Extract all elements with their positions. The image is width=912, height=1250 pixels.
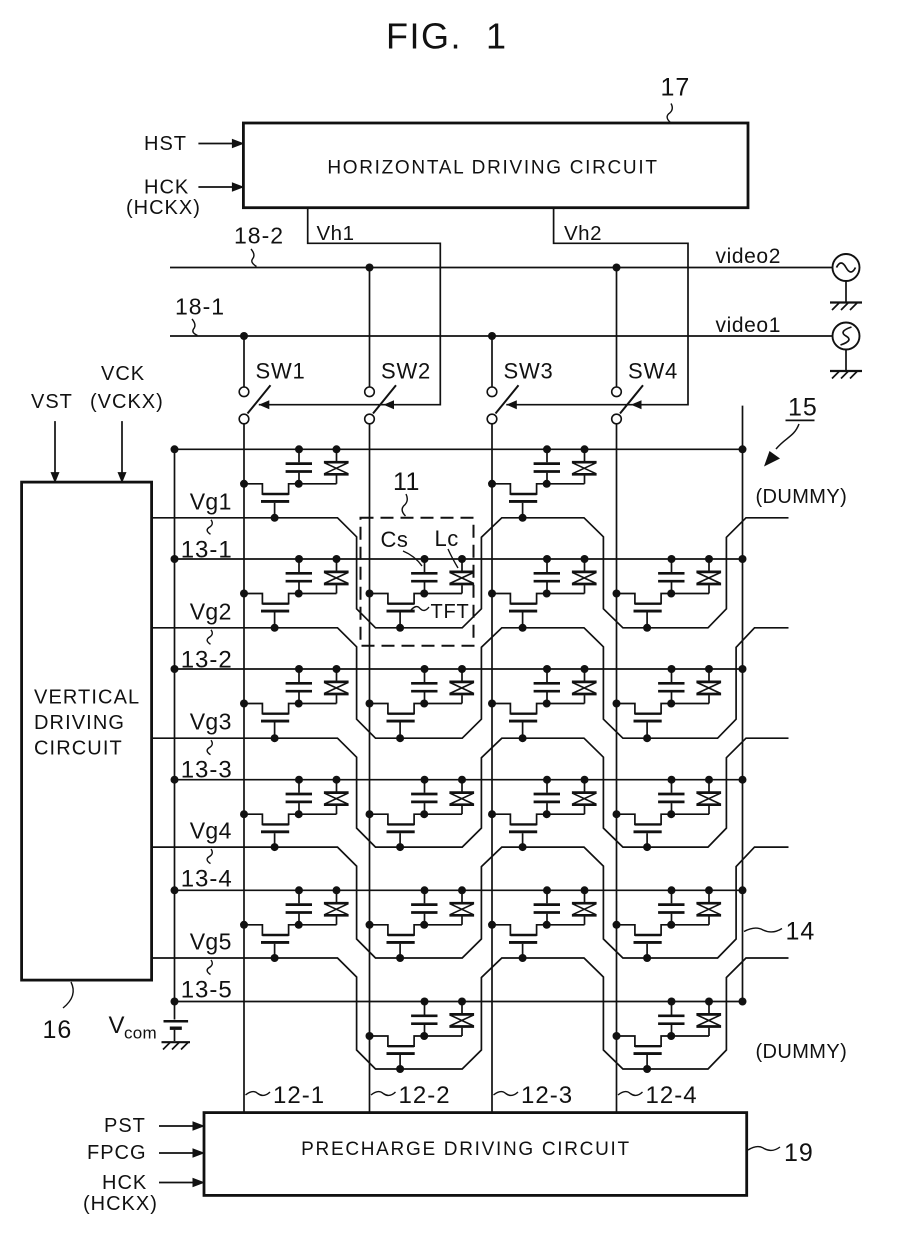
liquid crystal cell Lc row5 col3 xyxy=(547,886,597,925)
storage capacitor Cs row2 col1 xyxy=(286,555,312,594)
label 12-4 xyxy=(618,1082,698,1109)
label 13-1 leader xyxy=(181,520,233,564)
left Vcom bus wire xyxy=(174,449,176,1019)
liquid crystal cell Lc row3 col4 xyxy=(671,665,721,704)
ground video1 xyxy=(830,371,862,379)
storage capacitor Cs row3 col4 xyxy=(658,665,684,704)
svg-text:PST: PST xyxy=(104,1115,146,1137)
storage capacitor Cs row4 col2 xyxy=(411,776,437,815)
pixel TFT row6 col2 xyxy=(366,1032,429,1073)
storage capacitor Cs row2 col4 xyxy=(658,555,684,594)
storage capacitor Cs row5 col2 xyxy=(411,886,437,925)
svg-text:CIRCUIT: CIRCUIT xyxy=(34,738,123,760)
svg-text:17: 17 xyxy=(661,74,691,102)
svg-text:SW3: SW3 xyxy=(504,359,554,384)
svg-text:FPCG: FPCG xyxy=(87,1142,147,1164)
label 13-3 leader xyxy=(181,740,233,784)
svg-text:Vg4: Vg4 xyxy=(190,818,232,844)
liquid crystal cell Lc row2 col4 xyxy=(671,555,721,594)
svg-text:Vh2: Vh2 xyxy=(564,222,602,245)
liquid crystal cell Lc row2 col3 xyxy=(547,555,597,594)
svg-text:Cs: Cs xyxy=(381,527,409,552)
svg-text:(DUMMY): (DUMMY) xyxy=(756,486,848,508)
liquid crystal cell Lc row2 col1 xyxy=(299,555,349,594)
svg-text:13-3: 13-3 xyxy=(181,757,233,784)
svg-text:(DUMMY): (DUMMY) xyxy=(756,1041,848,1063)
label 14 leader xyxy=(744,918,815,946)
svg-text:(VCKX): (VCKX) xyxy=(90,391,164,413)
video2 signal line xyxy=(170,245,833,268)
PST input arrow xyxy=(104,1115,205,1137)
svg-text:PRECHARGE DRIVING CIRCUIT: PRECHARGE DRIVING CIRCUIT xyxy=(301,1139,631,1160)
pixel TFT row2 col1 xyxy=(240,590,303,632)
storage capacitor Cs row3 col1 xyxy=(286,665,312,704)
svg-text:VST: VST xyxy=(31,391,73,413)
svg-text:HCK: HCK xyxy=(102,1172,147,1194)
storage capacitor Cs row5 col1 xyxy=(286,886,312,925)
common line row 3 xyxy=(171,776,747,784)
common line row 1 xyxy=(171,555,747,563)
storage capacitor Cs row1 col1 xyxy=(286,445,312,484)
storage capacitor Cs row1 col3 xyxy=(534,445,560,484)
svg-text:13-4: 13-4 xyxy=(181,866,233,893)
svg-text:FIG.: FIG. xyxy=(386,16,462,57)
liquid crystal cell Lc row6 col4 xyxy=(671,998,721,1037)
svg-text:Vg3: Vg3 xyxy=(190,709,232,735)
pixel TFT row3 col4 xyxy=(613,700,676,743)
svg-text:(HCKX): (HCKX) xyxy=(126,197,201,219)
svg-text:13-5: 13-5 xyxy=(181,977,233,1004)
label 18-2 leader xyxy=(234,223,284,267)
vertical driving circuit U16 xyxy=(22,482,152,980)
liquid crystal cell Lc row3 col2 xyxy=(424,665,474,704)
storage capacitor Cs row6 col2 xyxy=(411,998,437,1037)
gate line Vg1 xyxy=(152,518,789,628)
liquid crystal cell Lc row5 col2 xyxy=(424,886,474,925)
right common bus wire xyxy=(742,406,744,1002)
liquid crystal cell Lc row5 col1 xyxy=(299,886,349,925)
svg-text:1: 1 xyxy=(486,16,506,57)
label Lc leader xyxy=(435,526,459,568)
svg-text:11: 11 xyxy=(393,468,420,496)
pixel TFT row5 col1 xyxy=(240,921,303,962)
storage capacitor Cs row5 col3 xyxy=(534,886,560,925)
pixel TFT row2 col4 xyxy=(613,590,676,632)
precharge driving circuit U19 xyxy=(204,1113,747,1196)
storage capacitor Cs row3 col2 xyxy=(411,665,437,704)
liquid crystal cell Lc row4 col3 xyxy=(547,776,597,815)
liquid crystal cell Lc row3 col3 xyxy=(547,665,597,704)
storage capacitor Cs row4 col4 xyxy=(658,776,684,815)
pixel TFT row4 col4 xyxy=(613,810,676,851)
common line row 0 xyxy=(171,445,747,453)
pixel TFT row5 col2 xyxy=(366,921,429,962)
svg-text:12-3: 12-3 xyxy=(521,1082,573,1109)
label 15 leader arrow xyxy=(764,394,818,467)
data line 12-2 wire xyxy=(369,424,371,1113)
svg-text:13-2: 13-2 xyxy=(181,646,233,673)
label 18-1 leader xyxy=(175,294,225,336)
svg-text:19: 19 xyxy=(784,1139,814,1167)
svg-text:14: 14 xyxy=(786,918,816,946)
ground video2 xyxy=(830,303,862,311)
svg-text:Vg1: Vg1 xyxy=(190,488,232,514)
liquid crystal cell Lc row4 col4 xyxy=(671,776,721,815)
pixel TFT row3 col2 xyxy=(366,700,429,743)
ground Vcom xyxy=(162,1042,191,1049)
pixel TFT row5 col4 xyxy=(613,921,676,962)
svg-text:DRIVING: DRIVING xyxy=(34,712,125,734)
pixel TFT row3 col3 xyxy=(488,700,551,743)
common line row 2 xyxy=(171,665,747,673)
common line row 5 xyxy=(171,998,747,1006)
label 16 leader xyxy=(43,982,74,1044)
label 12-1 xyxy=(246,1082,326,1109)
svg-text:18-2: 18-2 xyxy=(234,223,284,249)
switch SW2 xyxy=(365,264,431,424)
pixel TFT row4 col3 xyxy=(488,810,551,851)
pixel TFT row5 col3 xyxy=(488,921,551,962)
storage capacitor Cs row3 col3 xyxy=(534,665,560,704)
pixel TFT row2 col3 xyxy=(488,590,551,632)
svg-text:16: 16 xyxy=(43,1016,73,1044)
label 13-5 leader xyxy=(181,960,233,1004)
svg-text:12-4: 12-4 xyxy=(646,1082,698,1109)
AC source video1 xyxy=(833,323,860,371)
liquid crystal cell Lc row4 col2 xyxy=(424,776,474,815)
pixel TFT row4 col1 xyxy=(240,810,303,851)
svg-text:video2: video2 xyxy=(716,245,781,268)
label 13-4 leader xyxy=(181,849,233,893)
svg-text:video1: video1 xyxy=(716,314,781,337)
label TFT leader xyxy=(411,601,470,623)
gate line Vg4 xyxy=(152,847,789,958)
svg-text:18-1: 18-1 xyxy=(175,294,225,320)
storage capacitor Cs row2 col2 xyxy=(411,555,437,594)
switch SW1 xyxy=(239,332,305,424)
storage capacitor Cs row2 col3 xyxy=(534,555,560,594)
pixel TFT row1 col3 xyxy=(488,480,551,522)
FPCG input arrow xyxy=(87,1142,205,1164)
liquid crystal cell Lc row6 col2 xyxy=(424,998,474,1037)
svg-text:Vg5: Vg5 xyxy=(190,929,232,955)
svg-text:(HCKX): (HCKX) xyxy=(83,1193,158,1215)
svg-text:HORIZONTAL DRIVING CIRCUIT: HORIZONTAL DRIVING CIRCUIT xyxy=(327,158,658,179)
horizontal driving circuit U17 xyxy=(243,123,748,208)
data line 12-1 wire xyxy=(243,424,245,1113)
label 12-2 xyxy=(371,1082,451,1109)
svg-text:Vh1: Vh1 xyxy=(317,222,355,245)
HCK (HCKX) input arrow xyxy=(126,177,244,220)
svg-text:12-2: 12-2 xyxy=(399,1082,451,1109)
svg-text:12-1: 12-1 xyxy=(273,1082,325,1109)
label Cs leader xyxy=(381,527,423,566)
svg-text:com: com xyxy=(124,1024,157,1043)
svg-text:SW2: SW2 xyxy=(381,359,431,384)
svg-text:V: V xyxy=(109,1012,125,1039)
liquid crystal cell Lc row1 col3 xyxy=(547,445,597,484)
storage capacitor Cs row5 col4 xyxy=(658,886,684,925)
svg-text:HCK: HCK xyxy=(144,177,189,199)
svg-text:Lc: Lc xyxy=(435,526,459,551)
svg-text:SW1: SW1 xyxy=(256,359,306,384)
HCK (HCKX) precharge input arrow xyxy=(83,1172,205,1215)
VCK (VCKX) input arrow xyxy=(90,363,164,483)
VST input arrow xyxy=(31,391,73,483)
video1 signal line xyxy=(170,314,833,337)
switch SW4 xyxy=(612,264,678,424)
label 12-3 xyxy=(494,1082,574,1109)
svg-text:HST: HST xyxy=(144,133,187,155)
svg-text:Vg2: Vg2 xyxy=(190,598,232,624)
liquid crystal cell Lc row2 col2 xyxy=(424,555,474,594)
gate line Vg3 xyxy=(152,738,789,847)
svg-text:15: 15 xyxy=(788,394,818,422)
pixel TFT row1 col1 xyxy=(240,480,303,522)
label 11 leader xyxy=(393,468,420,516)
label 13-2 leader xyxy=(181,630,233,674)
Vcom battery xyxy=(164,1021,189,1041)
label 19 leader xyxy=(748,1139,814,1167)
pixel TFT row6 col4 xyxy=(613,1032,676,1073)
liquid crystal cell Lc row1 col1 xyxy=(299,445,349,484)
pixel TFT row4 col2 xyxy=(366,810,429,851)
data line 12-3 wire xyxy=(491,424,493,1113)
gate line Vg5 xyxy=(152,958,789,1069)
storage capacitor Cs row6 col4 xyxy=(658,998,684,1037)
svg-text:VERTICAL: VERTICAL xyxy=(34,687,140,709)
pixel TFT row2 col2 xyxy=(366,590,429,632)
liquid crystal cell Lc row4 col1 xyxy=(299,776,349,815)
pixel cell outline 11 (dashed box) xyxy=(361,518,474,646)
liquid crystal cell Lc row3 col1 xyxy=(299,665,349,704)
liquid crystal cell Lc row5 col4 xyxy=(671,886,721,925)
common line row 4 xyxy=(171,886,747,894)
svg-text:SW4: SW4 xyxy=(628,359,678,384)
data line 12-4 wire xyxy=(616,424,618,1113)
svg-text:13-1: 13-1 xyxy=(181,536,233,563)
svg-text:TFT: TFT xyxy=(431,601,470,623)
gate line Vg2 xyxy=(152,628,789,738)
svg-text:VCK: VCK xyxy=(101,363,145,385)
storage capacitor Cs row4 col1 xyxy=(286,776,312,815)
storage capacitor Cs row4 col3 xyxy=(534,776,560,815)
Vh1 control line xyxy=(259,208,441,410)
HST input arrow xyxy=(144,133,244,155)
label 17 leader xyxy=(661,74,691,123)
Vcom label xyxy=(109,1012,158,1043)
pixel TFT row3 col1 xyxy=(240,700,303,743)
AC source video2 xyxy=(833,254,860,302)
Vh2 control line xyxy=(506,208,688,410)
switch SW3 xyxy=(487,332,553,424)
